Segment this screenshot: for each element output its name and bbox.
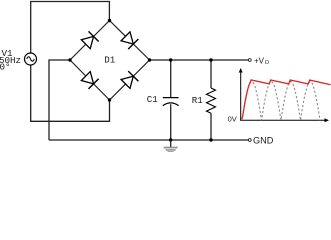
diode bridge D1: top-left diode (points to top corner) xyxy=(81,31,99,49)
bridge edge wires xyxy=(70,21,150,101)
junction: bridge left corner xyxy=(68,58,71,61)
label +Vo xyxy=(254,56,270,66)
D1 top-right diode (points to right corner) xyxy=(120,31,138,49)
plot y-axis xyxy=(239,68,243,121)
svg-text:GND: GND xyxy=(253,136,274,146)
D1 bottom-left diode (points to bottom corner) xyxy=(81,71,99,89)
svg-text:0V: 0V xyxy=(228,114,237,123)
plot x-axis xyxy=(240,118,329,122)
junction: R1 bottom node xyxy=(209,138,212,141)
resistor R1 xyxy=(207,60,216,140)
label V1 50Hz 0deg xyxy=(0,48,21,72)
wire bottom AC: source bottom to bridge bottom xyxy=(31,65,110,121)
capacitor C1 xyxy=(163,60,179,140)
waveform: rectified sine (dashed) xyxy=(242,82,320,121)
junction: bridge top corner xyxy=(108,19,111,22)
junction: R1 top node xyxy=(209,58,212,61)
wire: bridge left corner to ground rail xyxy=(49,60,70,140)
junction: C1 top node xyxy=(169,58,172,61)
junction: bridge bottom corner xyxy=(108,98,111,101)
svg-text:D1: D1 xyxy=(104,55,116,66)
junction: bridge right corner xyxy=(148,58,151,61)
terminal +Vo xyxy=(248,59,251,62)
terminal GND xyxy=(248,139,251,142)
wire top: source top to bridge top xyxy=(31,2,110,54)
svg-text:0°: 0° xyxy=(0,61,11,72)
svg-text:C1: C1 xyxy=(147,94,159,105)
svg-text:R1: R1 xyxy=(192,95,204,106)
ground symbol xyxy=(164,140,178,153)
wire: output rail (bridge right corner to +Vo) xyxy=(150,59,249,61)
AC source V1 xyxy=(25,53,37,65)
D1 bottom-right diode (points to right corner) xyxy=(120,71,138,89)
svg-text:O: O xyxy=(265,60,270,66)
junction: C1 bottom node xyxy=(169,138,172,141)
waveform: filtered output (red) xyxy=(242,80,331,119)
svg-text:+V: +V xyxy=(254,56,265,65)
wire: ground rail (bottom) xyxy=(49,139,248,141)
